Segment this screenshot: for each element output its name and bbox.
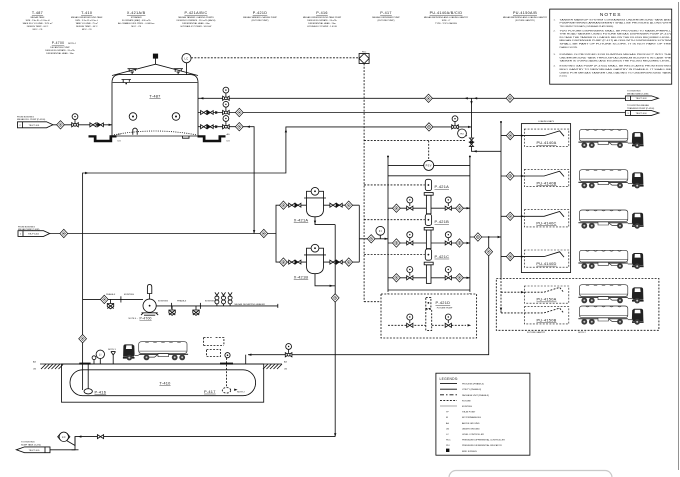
wire PDC branch to pump B dashed (364, 219, 425, 221)
svg-text:DIFFERENTIAL HEAD : 60m: DIFFERENTIAL HEAD : 60m (182, 22, 210, 25)
PDC controller (359, 52, 369, 64)
wire tank outlet line 2 (198, 112, 625, 114)
tie point TP line 2 (235, 108, 243, 116)
svg-text:FUTURE: FUTURE (462, 400, 471, 402)
svg-text:FROM EXISTING: FROM EXISTING (17, 116, 34, 118)
LC on sump line (58, 432, 75, 445)
svg-text:T-487: T-487 (32, 11, 43, 15)
svg-text:P-416: P-416 (316, 11, 328, 15)
svg-text:AG: AG (284, 361, 287, 364)
tie point TP strainer A inlet (280, 201, 288, 209)
off-page connector to existing MEGAS tank (625, 91, 658, 101)
off-page connector from existing MEGAS tank T-488 (18, 226, 50, 236)
check valve (98, 123, 104, 127)
svg-text:PRESSURE DIFFERENTIAL INDICATO: PRESSURE DIFFERENTIAL INDICATOR (462, 444, 502, 447)
future branch to PU-4150B (501, 312, 524, 314)
strainer drain header (334, 225, 336, 437)
tie point TP on line 1 (425, 94, 433, 102)
svg-text:LC: LC (446, 434, 449, 436)
svg-text:TIE-IN POINT: TIE-IN POINT (462, 412, 476, 414)
svg-text:MEGAS UNDERGROUND TANK: MEGAS UNDERGROUND TANK (71, 16, 103, 19)
svg-text:UNDER GROUND: UNDER GROUND (462, 428, 480, 430)
loading bays manifold (500, 122, 502, 278)
svg-text:SIZE : 3.2m ID x 8.5m L: SIZE : 3.2m ID x 8.5m L (75, 20, 99, 22)
svg-text:(FUTURE GANTRY): (FUTURE GANTRY) (515, 19, 535, 22)
decanting header riser valves (215, 292, 219, 306)
svg-text:SIZE : 4": SIZE : 4" (442, 20, 451, 22)
tank T-410 (70, 370, 256, 396)
pump P-421C (388, 249, 470, 284)
svg-text:DIFFERENTIAL HEAD : 30m: DIFFERENTIAL HEAD : 30m (46, 52, 74, 55)
svg-text:LC: LC (62, 435, 66, 439)
svg-text:UG: UG (284, 369, 288, 371)
svg-text:MOTOR/MANHOLE: MOTOR/MANHOLE (462, 416, 482, 419)
equipment header P-421D (243, 11, 277, 22)
ground hatch left (41, 364, 63, 369)
future pump P-417 dashed (204, 355, 246, 394)
svg-text:UG: UG (33, 369, 37, 371)
svg-text:MEGAS TANK: MEGAS TANK (31, 16, 45, 19)
bay C branch (501, 215, 524, 217)
strainer X-421B (294, 244, 326, 279)
arrow into tank on line 1 (200, 97, 203, 99)
decanting line from fill riser (83, 298, 143, 300)
gate valve on drain (97, 435, 103, 439)
wire PDC signal trunk dashed (363, 64, 365, 302)
arrows on line 1 at return junction (464, 97, 467, 99)
arrow on line 3 (247, 126, 250, 128)
relief cross line with PSV (388, 164, 470, 166)
svg-text:TWO INSPECTION BAYS (OVERHEAD: TWO INSPECTION BAYS (OVERHEAD PLATFORMS)… (560, 25, 615, 28)
svg-text:MEGAS FILL PUMP (P-4100): MEGAS FILL PUMP (P-4100) (17, 118, 45, 121)
funnel NOTE 3 (108, 349, 117, 364)
phase break ticks on discharge (172, 303, 201, 309)
tank manhole circle right (172, 113, 180, 121)
svg-text:EXISTING: EXISTING (462, 406, 472, 408)
wire PDC branch to pump A dashed (364, 184, 425, 186)
svg-text:HYDRAULIC POWER : 1.6 kW: HYDRAULIC POWER : 1.6 kW (307, 25, 337, 28)
svg-text:SAFE FILL VOLUME : 1570 m³: SAFE FILL VOLUME : 1570 m³ (23, 22, 53, 25)
strainer outlet header to pump suction (359, 205, 388, 262)
future dispenser dashed boxes (204, 338, 224, 357)
svg-text:LEGENDS:: LEGENDS: (440, 377, 459, 381)
roof nozzle right (174, 69, 184, 74)
svg-text:PACKAGE UNIT (PHASE-II): PACKAGE UNIT (PHASE-II) (462, 394, 489, 397)
svg-text:P-417: P-417 (204, 389, 216, 394)
tie point TP strainer B inlet (280, 258, 288, 266)
off-page connector to existing MEGAS transfer pump (625, 104, 659, 115)
tanker truck bay A (578, 129, 643, 148)
tie point TP line 3 (235, 123, 243, 131)
pump P-421D future (388, 297, 471, 330)
equipment header X-421A/B (118, 11, 155, 28)
svg-text:PU-4150B: PU-4150B (537, 317, 557, 322)
svg-text:TIE-PT-401: TIE-PT-401 (29, 125, 41, 127)
svg-text:PSV: PSV (426, 164, 432, 168)
svg-text:AG: AG (118, 133, 121, 136)
svg-text:DESIGN FLOWRATE : 20 m³/h: DESIGN FLOWRATE : 20 m³/h (45, 49, 75, 52)
svg-text:FROM EXISTING: FROM EXISTING (18, 226, 35, 228)
tie point TP on drain header (331, 294, 339, 302)
svg-text:TANKER MAKEUP SYSTEM CONTAININ: TANKER MAKEUP SYSTEM CONTAINING UNDERGRO… (560, 18, 672, 21)
svg-text:PHASE-II: PHASE-II (177, 300, 187, 303)
svg-text:X-421B: X-421B (294, 274, 309, 279)
wire transfer line to strainers (50, 233, 276, 235)
decanting pump P-4700 (129, 284, 159, 320)
bay B branch (501, 175, 524, 177)
svg-text:MEGAS DISPENSER PUMP: MEGAS DISPENSER PUMP (372, 16, 400, 19)
svg-text:MEGAS METERING AND LOADING GAN: MEGAS METERING AND LOADING GANTRY (503, 16, 548, 19)
svg-text:PU-4140C: PU-4140C (536, 221, 556, 226)
lower cross line (388, 175, 470, 177)
wire LC to PDC dashed signal (191, 57, 359, 59)
svg-text:M: M (446, 417, 448, 419)
svg-text:TO EXISTING: TO EXISTING (21, 441, 35, 443)
underground tank pit (62, 364, 264, 402)
reducer tick line 2 (215, 111, 217, 114)
bottom cross line (388, 289, 470, 291)
svg-text:PU-4140A/B/C/D: PU-4140A/B/C/D (430, 11, 463, 15)
level gauge on T-410 (96, 350, 104, 364)
svg-text:IN CASE THE TANKER IS LOADED B: IN CASE THE TANKER IS LOADED BELOW THE F… (560, 36, 672, 39)
tie point TP strainer B outlet (345, 258, 353, 266)
svg-text:P-421C: P-421C (435, 254, 450, 259)
wire P-416 transfer line from T-410 to pump suction (83, 127, 472, 364)
tanker truck bay C (578, 210, 643, 229)
svg-text:MOC : CS: MOC : CS (33, 29, 43, 31)
equipment header PU-4140A/B/C/D (424, 11, 469, 25)
svg-text:T-487: T-487 (149, 94, 160, 99)
tank manhole circle left (129, 113, 137, 121)
gate valve (90, 123, 96, 127)
svg-text:PHASE-II SCOPE.: PHASE-II SCOPE. (560, 46, 579, 49)
future gantry PU-4150B (524, 307, 569, 324)
svg-text:TWO FUTURE DISPENSERS SHALL BE: TWO FUTURE DISPENSERS SHALL BE PROVIDED … (560, 29, 673, 32)
bird screen on vent (153, 54, 158, 59)
svg-text:PU-4140D: PU-4140D (536, 261, 556, 266)
tie point TP (60, 229, 68, 237)
wire PDC branch to pump C dashed (364, 254, 425, 256)
future gantry dashed enclosure (496, 279, 659, 331)
locked-open valve under decant line (107, 299, 113, 309)
globe valve with PI line 3 (223, 116, 230, 129)
tie point TP on line 1 right (506, 94, 514, 102)
locked-open valve 1 under discharge (169, 306, 175, 316)
bottom drain line to sump (50, 437, 335, 450)
svg-text:TYPE : TOP LOADING: TYPE : TOP LOADING (435, 22, 457, 25)
svg-text:P-4700: P-4700 (52, 41, 64, 45)
svg-text:PROCESS (PHASE-II): PROCESS (PHASE-II) (462, 383, 484, 386)
wire dashed stub to PSV (428, 141, 430, 160)
strainer X-421A (294, 187, 326, 222)
wire PDC branch to pump D dashed (364, 301, 425, 303)
equipment header PU-4150A/B (503, 11, 548, 22)
PDI indicator (458, 129, 467, 138)
svg-text:AG: AG (227, 133, 230, 136)
control valve on return (470, 138, 474, 146)
svg-text:TANK VOLUME : 75 m³: TANK VOLUME : 75 m³ (75, 22, 98, 25)
tank bottom dashed cone (114, 131, 196, 135)
reducer tick line 3 (215, 125, 217, 128)
pump P-421B (388, 214, 470, 249)
svg-text:TIE-PT-403: TIE-PT-403 (636, 98, 648, 100)
pump P-416 (84, 364, 106, 394)
wire tank inlet line (53, 124, 112, 126)
UI overlay rounded box (449, 471, 612, 477)
strainer A drain (315, 217, 335, 225)
svg-text:AG: AG (33, 361, 36, 364)
svg-text:NOTE 3: NOTE 3 (108, 349, 117, 351)
svg-text:LC: LC (185, 56, 189, 60)
off-page connector from existing MEGAS fill pump (17, 116, 53, 128)
svg-text:EXISTING GAS PUMP (P-4700) SHA: EXISTING GAS PUMP (P-4700) SHALL BE RELO… (560, 65, 672, 68)
wire PDC to control valve dashed (364, 140, 466, 142)
gate valves strainer B inlet (289, 260, 295, 264)
gate valves strainer A inlet (289, 203, 295, 207)
globe valve with PI on dispenser line (285, 344, 292, 357)
return line vertical with control valve (472, 98, 502, 151)
svg-text:X-421A: X-421A (294, 217, 309, 222)
svg-text:THE ROAD TANKER USING FUTURE M: THE ROAD TANKER USING FUTURE MEGAS DISPE… (560, 33, 672, 36)
svg-text:P-4700: P-4700 (140, 317, 152, 321)
svg-text:PU-4150A/B: PU-4150A/B (513, 11, 537, 15)
svg-text:MOC : CS: MOC : CS (131, 26, 141, 28)
pump discharge header (469, 157, 471, 291)
svg-text:UNDERGROUND TANK THROUGH ALUMI: UNDERGROUND TANK THROUGH ALUMINUM BUCKET… (560, 56, 672, 59)
tie point TP (367, 235, 375, 243)
svg-text:LOADING BAYS: LOADING BAYS (538, 120, 554, 123)
svg-text:FLOWRATE (MAX) : 630 m³/h: FLOWRATE (MAX) : 630 m³/h (122, 19, 151, 22)
bay D branch (501, 256, 524, 258)
tie point TP strainer A outlet (345, 201, 353, 209)
svg-text:PU-4150A: PU-4150A (537, 297, 557, 302)
svg-text:P-416: P-416 (95, 389, 107, 394)
svg-text:HYDRAULIC POWER : 34.8 kW: HYDRAULIC POWER : 34.8 kW (181, 25, 213, 28)
svg-text:P-421A: P-421A (435, 184, 450, 189)
ground line (40, 363, 282, 365)
gate valve line 3 (201, 125, 207, 129)
equipment header P-416 (303, 11, 342, 28)
future gantry PU-4150A (524, 286, 569, 303)
svg-text:TIE-PT-405: TIE-PT-405 (29, 450, 41, 452)
arrow down joining transfer line (253, 230, 255, 233)
bay A branch (501, 135, 524, 137)
svg-text:EXISTING: EXISTING (158, 301, 168, 303)
tank internal fill tube (133, 128, 137, 135)
tank flange right (220, 363, 233, 365)
wire tank outlet line 3 (198, 127, 254, 234)
svg-text:PU-4140A: PU-4140A (537, 140, 557, 145)
gate valve line 2 (201, 111, 207, 115)
tanker truck future bay A (578, 285, 643, 304)
svg-text:NOTE 2: NOTE 2 (578, 332, 587, 334)
svg-text:TANKER IS OVERLOADED AND EXCEE: TANKER IS OVERLOADED AND EXCEEDS THE FIL… (560, 60, 672, 63)
svg-text:MEGAS METERING AND LOADING GAN: MEGAS METERING AND LOADING GANTRY (424, 16, 469, 19)
svg-text:MOC : CS: MOC : CS (82, 29, 92, 31)
svg-text:DESIGN TEMP. : 60°C: DESIGN TEMP. : 60°C (27, 26, 49, 28)
strainer inlet manifold (276, 205, 306, 262)
shell nozzle (122, 80, 132, 85)
svg-text:LI: LI (99, 352, 102, 356)
svg-text:ALLOWABLE DIFF. PRES. : 0.068: ALLOWABLE DIFF. PRES. : 0.068 bar (118, 22, 155, 25)
loading gantry PU-4140D (524, 250, 569, 267)
svg-text:EXISTING: EXISTING (205, 301, 215, 303)
tie point TP (57, 121, 65, 129)
svg-text:P-421A/B/C: P-421A/B/C (185, 11, 208, 15)
future pump P-421D dashed box (381, 294, 477, 338)
svg-text:UTILITY (PHASE-II): UTILITY (PHASE-II) (462, 388, 481, 391)
svg-text:DESIGN TEMP. : 60°C: DESIGN TEMP. : 60°C (76, 26, 98, 28)
svg-text:SUMP TANK (T-470): SUMP TANK (T-470) (21, 443, 41, 446)
svg-text:MEGAS TANKER LOADING PUMP: MEGAS TANKER LOADING PUMP (243, 16, 277, 19)
discharge main to loading manifold (470, 236, 501, 238)
svg-text:BIRD SCREEN: BIRD SCREEN (462, 451, 477, 453)
tie point TP decant (100, 295, 108, 303)
arrow into tank (109, 124, 112, 126)
flow indicator FI (376, 226, 385, 238)
pump suction header (387, 157, 389, 291)
svg-text:DECANTING PUMP: DECANTING PUMP (50, 46, 70, 49)
svg-text:DIFFERENTIAL HEAD : 20m: DIFFERENTIAL HEAD : 20m (308, 22, 336, 25)
svg-text:MEGAS DISPENSER PUMP (P-417) A: MEGAS DISPENSER PUMP (P-417) ALONG WITH … (560, 39, 672, 42)
ground hatch right (263, 364, 282, 369)
equipment header P-417 (372, 11, 400, 22)
legends box (436, 373, 530, 455)
roof nozzle left (128, 69, 138, 74)
strainer B outlet (324, 261, 360, 263)
strainer A outlet (324, 204, 360, 206)
svg-text:DESIGN FLOWRATE : 24 m³/h: DESIGN FLOWRATE : 24 m³/h (307, 19, 337, 22)
svg-text:ABOVE GROUND: ABOVE GROUND (462, 422, 480, 425)
foundation right of T-487 (198, 135, 226, 142)
svg-text:MEGAS UNDERGROUND TANK PUMP: MEGAS UNDERGROUND TANK PUMP (303, 16, 342, 19)
equipment header P-421A/B/C (177, 11, 216, 28)
arrow on return horizontal (473, 150, 476, 152)
svg-text:(T-410).: (T-410). (560, 76, 568, 78)
wire tank return line 1 (198, 97, 625, 99)
tie point TP (260, 229, 268, 237)
phase break tick (120, 296, 122, 302)
globe valve with PI (72, 114, 79, 127)
svg-text:X-421A/B: X-421A/B (127, 11, 146, 15)
tank flange left (79, 363, 90, 365)
strainer B drain (315, 274, 335, 286)
svg-text:(FUTURE PUMP): (FUTURE PUMP) (252, 20, 269, 22)
svg-text:FUTURE PUMP: FUTURE PUMP (437, 308, 453, 310)
svg-text:AG: AG (446, 422, 449, 425)
svg-text:PU-4140B: PU-4140B (537, 180, 557, 185)
fill pipe into tank (82, 364, 84, 390)
svg-text:P-421D: P-421D (253, 11, 268, 15)
loading gantry PU-4140C (524, 210, 569, 227)
svg-text:FUNNEL IS PROVIDED FOR DUMPING: FUNNEL IS PROVIDED FOR DUMPING MEGAS PRO… (560, 53, 672, 56)
tanker truck future bay B (578, 306, 643, 325)
level controller LC on tank (182, 54, 191, 75)
svg-text:NOTE 4: NOTE 4 (68, 43, 77, 45)
svg-text:(FUTURE PUMP): (FUTURE PUMP) (378, 20, 395, 22)
tie point TP on riser line (425, 123, 433, 131)
svg-text:MGO GANTRY TO NEW MEGAS GANTRY: MGO GANTRY TO NEW MEGAS GANTRY IN PHASE-… (560, 68, 672, 71)
tie point TP on fill riser (79, 335, 87, 343)
locked-open valve 2 under discharge (193, 306, 199, 316)
svg-text:T-410: T-410 (81, 11, 92, 15)
svg-text:P-417: P-417 (380, 11, 392, 15)
svg-text:FI: FI (379, 229, 382, 233)
svg-text:TIE-PT-404: TIE-PT-404 (636, 113, 648, 115)
svg-text:PDI: PDI (446, 445, 450, 447)
tank T-487 vent stack (155, 59, 157, 65)
decant pump discharge header (156, 304, 278, 308)
check valve line 2 (207, 111, 213, 115)
svg-text:NOTES: NOTES (600, 12, 622, 18)
svg-text:MEGAS DECANTING HEADER: MEGAS DECANTING HEADER (235, 303, 266, 306)
svg-text:TO EXISTING: TO EXISTING (627, 91, 641, 93)
svg-text:SHALL BE PART OF FUTURE SCOPE.: SHALL BE PART OF FUTURE SCOPE. IT IS NOT… (560, 43, 672, 46)
svg-text:NOTE 4 -: NOTE 4 - (129, 318, 138, 320)
svg-text:P-421B: P-421B (435, 219, 450, 224)
future branch to PU-4150A (501, 291, 524, 293)
tank sump (183, 136, 190, 138)
equipment header P-4700 decanting pump (45, 41, 76, 55)
arrow down on return vertical (470, 101, 472, 104)
svg-text:STRAINER: STRAINER (131, 16, 142, 19)
off-page connector to existing sump tank (16, 441, 50, 452)
svg-text:PDI: PDI (460, 133, 464, 135)
wire fill drop into pit (245, 355, 247, 364)
dashed future header extensions (388, 290, 470, 332)
svg-text:PHASE-II: PHASE-II (106, 293, 116, 296)
svg-text:MEGAS TANKER LOADING PUMPS: MEGAS TANKER LOADING PUMPS (178, 16, 214, 19)
svg-text:PDC: PDC (446, 440, 451, 442)
pump P-421A (388, 179, 470, 214)
svg-text:NOTE 2: NOTE 2 (237, 391, 246, 393)
arrow at corner (85, 172, 88, 174)
tanker truck bay D (578, 250, 643, 269)
sheet border right edge (678, 2, 680, 470)
loading gantry PU-4140B (524, 169, 569, 186)
notes box (550, 9, 672, 84)
loading bays enclosure (521, 124, 570, 273)
svg-text:TIE-PT-402: TIE-PT-402 (28, 234, 40, 236)
tanker truck bay B (578, 170, 643, 189)
svg-text:PUMP/METERING ARRANGEMENT SHAL: PUMP/METERING ARRANGEMENT SHALL BE PROVI… (560, 22, 672, 25)
equipment header T-487 (23, 11, 53, 31)
arrow up at riser top (285, 129, 287, 132)
gate valve with PI near return junction (452, 116, 459, 129)
equipment header T-410 (71, 11, 103, 31)
svg-text:TRANSFER PUMP (P-4200): TRANSFER PUMP (P-4200) (627, 107, 654, 110)
globe valve with PI on line 1 (223, 87, 230, 100)
arrow into suction header (385, 238, 388, 240)
svg-text:P-421D: P-421D (436, 300, 451, 305)
svg-text:PRESSURE DIFFERENTIAL CONTROLL: PRESSURE DIFFERENTIAL CONTROLLER (462, 439, 505, 442)
arrow down at drain header bottom (334, 433, 336, 436)
svg-text:UG: UG (118, 141, 122, 143)
svg-text:TO EXISTING MEGAS: TO EXISTING MEGAS (627, 104, 649, 107)
svg-text:UG: UG (446, 428, 450, 430)
svg-text:EXISTING: EXISTING (124, 294, 134, 296)
svg-text:USED FOR MEGAS TANKER UNLOADIN: USED FOR MEGAS TANKER UNLOADING TO UNDER… (560, 71, 672, 74)
svg-text:UG: UG (227, 141, 231, 143)
tank T-487 (112, 64, 198, 136)
vent valve on T-410 (92, 356, 96, 364)
globe valve with PI line 2 (223, 101, 230, 114)
svg-text:DESIGN FLOWRATE : 210 m³/h (EA: DESIGN FLOWRATE : 210 m³/h (EACH) (177, 19, 216, 22)
svg-text:T-410: T-410 (159, 381, 171, 386)
unloading tanker truck at T-410 (123, 342, 188, 361)
svg-text:FUTURE GANTRY: FUTURE GANTRY (527, 331, 546, 334)
loading gantry PU-4140A (524, 129, 569, 146)
